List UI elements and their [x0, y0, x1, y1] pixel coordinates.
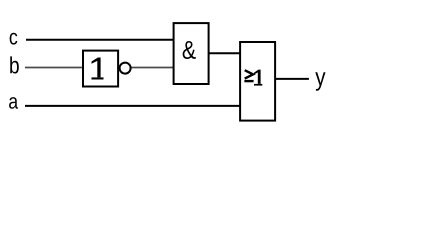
OR gate U3 label >= sign — [244, 70, 253, 81]
wire AND output to OR input — [209, 52, 241, 54]
AND gate U2 label & — [183, 41, 196, 59]
node c label — [10, 33, 18, 45]
NOT gate U1 inversion bubble — [120, 63, 131, 74]
node b label — [10, 56, 19, 73]
OR gate U3 label 1 — [254, 70, 262, 86]
NOT gate U1 box — [83, 51, 118, 87]
wire b to NOT input — [25, 67, 83, 69]
wire a to OR input — [25, 105, 240, 107]
OR gate U3 box — [240, 42, 275, 121]
wire NOT output to AND input — [131, 67, 174, 69]
wire OR output to y — [276, 78, 309, 80]
wire c to AND input — [26, 39, 174, 41]
NOT gate U1 label 1 — [92, 58, 104, 80]
AND gate U2 box — [174, 23, 209, 84]
node y label — [315, 72, 325, 90]
node a label — [9, 97, 18, 109]
